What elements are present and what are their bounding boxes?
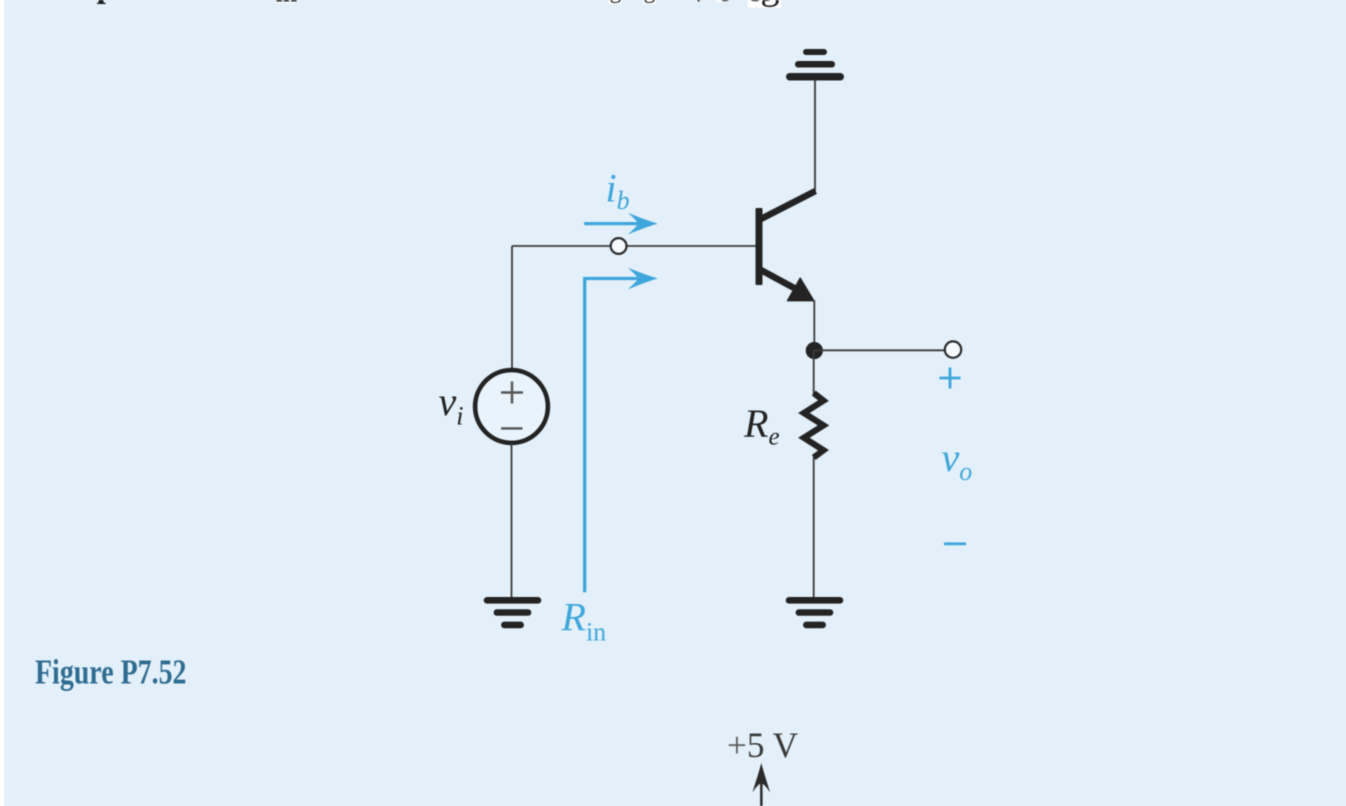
- junction node dot (emitter/output): [806, 342, 823, 359]
- input resistance arrow Rin: [585, 279, 642, 593]
- minus sign inside source: [501, 427, 523, 429]
- svg-text:Rin: Rin: [561, 595, 607, 647]
- svg-text:vo: vo: [942, 435, 973, 486]
- ground (input side): [484, 597, 542, 628]
- output terminal circle: [945, 341, 961, 357]
- svg-text:ib: ib: [606, 166, 630, 216]
- wire base horizontal: [512, 245, 756, 247]
- top cut-off text fragment: white sliver: [643, 0, 656, 4]
- terminal circle on base wire: [611, 238, 627, 254]
- plus sign inside source: [501, 382, 523, 404]
- svg-text:Re: Re: [743, 401, 780, 451]
- svg-text:g: g: [644, 0, 656, 4]
- svg-text:+5 V: +5 V: [727, 725, 798, 765]
- svg-text:in: in: [276, 0, 298, 8]
- svg-text:vi: vi: [439, 379, 464, 431]
- wire node to resistor: [813, 350, 815, 394]
- resistor Re: [804, 393, 824, 458]
- top cut-off text fragment: white formula box: [275, 0, 296, 3]
- collector stroke: [760, 191, 816, 220]
- wire emitter to output node: [813, 300, 815, 352]
- supply arrow up: [752, 763, 770, 806]
- svg-text:g: g: [610, 0, 622, 4]
- top cut-off text fragment: descender of p: [97, 0, 116, 5]
- emitter stroke: [760, 270, 796, 290]
- svg-text:p: p: [97, 0, 116, 5]
- base bar: [756, 208, 763, 285]
- top cut-off text fragment: stem: [698, 0, 700, 2]
- supply rail symbol (inverted ground) at collector top: [786, 49, 844, 81]
- ground (emitter side): [786, 597, 844, 628]
- wire collector vertical: [814, 80, 816, 192]
- top cut-off text fragment: white sliver: [696, 0, 701, 2]
- top cut-off text fragment: white sliver: [609, 0, 622, 4]
- voltage source vi: [475, 370, 548, 443]
- top cut-off text fragment: white sliver: [717, 0, 727, 2]
- wire input vertical: [511, 246, 513, 369]
- output minus sign: [944, 542, 966, 545]
- top cut-off text fragment: white formula box: [748, 0, 782, 8]
- wire source to ground: [511, 443, 513, 598]
- wire resistor to ground: [813, 457, 815, 598]
- current arrow ib: [584, 213, 658, 235]
- emitter arrowhead: [788, 278, 814, 300]
- svg-text:o: o: [719, 0, 732, 7]
- output plus sign: [940, 368, 961, 389]
- svg-text:Figure P7.52: Figure P7.52: [35, 652, 187, 691]
- transistor (npn): [756, 191, 816, 301]
- wire output horizontal: [814, 349, 944, 351]
- svg-text:g: g: [761, 0, 780, 8]
